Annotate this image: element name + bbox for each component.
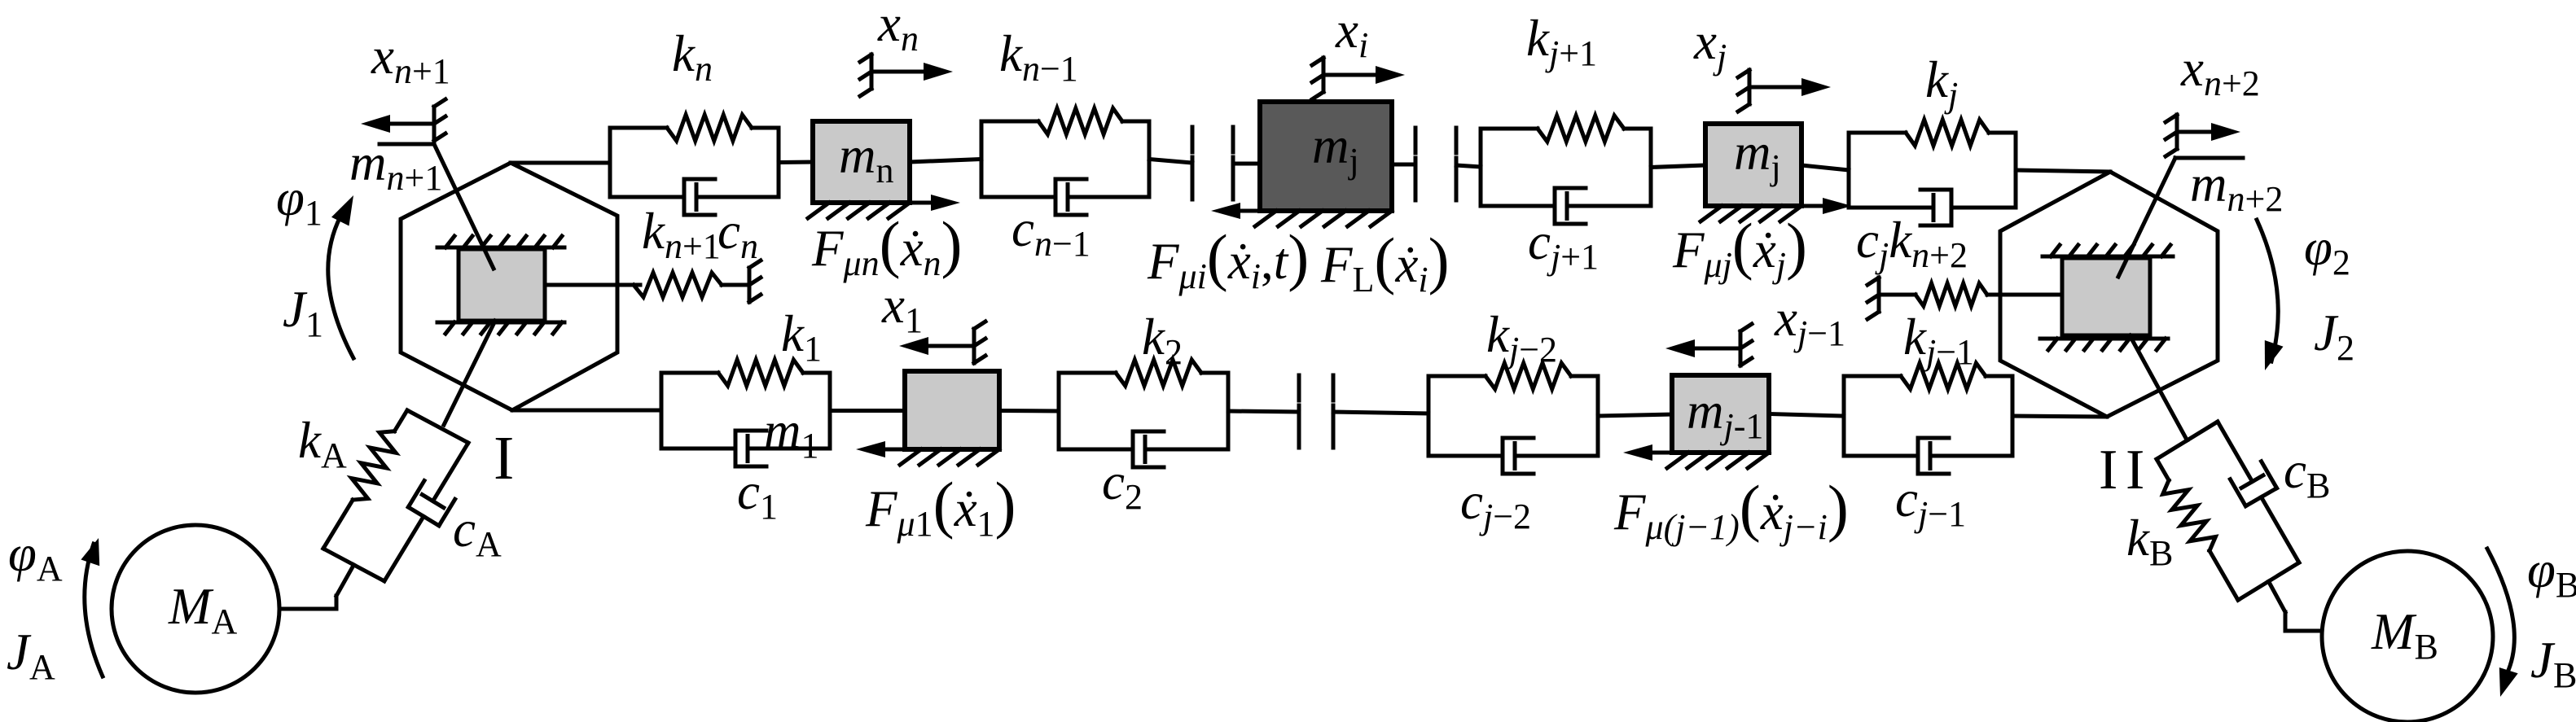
svg-text:I: I bbox=[494, 424, 514, 492]
svg-text:I: I bbox=[2126, 439, 2144, 501]
svg-text:Fμj(ẋj): Fμj(ẋj) bbox=[1672, 210, 1807, 285]
svg-text:FL(ẋi): FL(ẋi) bbox=[1320, 225, 1450, 300]
svg-text:I: I bbox=[2099, 439, 2117, 501]
svg-text:Fμi(ẋi,t): Fμi(ẋi,t) bbox=[1147, 221, 1309, 296]
